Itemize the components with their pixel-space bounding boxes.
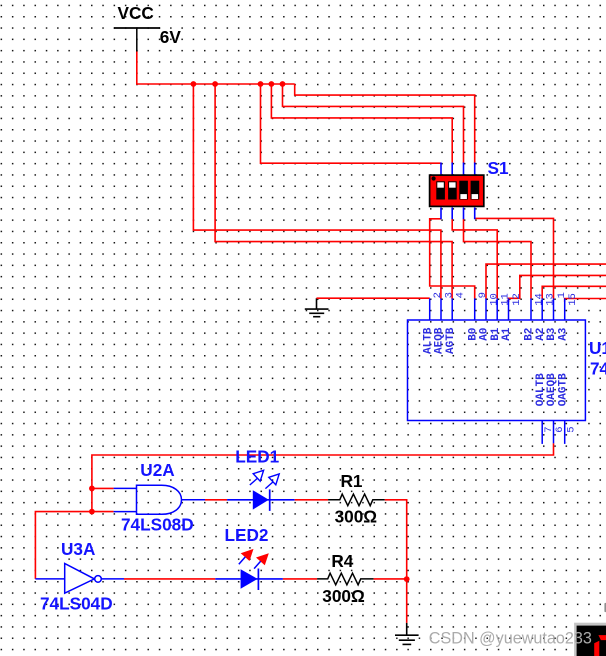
- svg-text:R4: R4: [331, 551, 353, 571]
- junction on bus at x=260: [258, 81, 264, 87]
- svg-text:9: 9: [477, 292, 489, 298]
- wire right edge to U1 pin 15 (A3): [565, 299, 606, 303]
- junction on bus at x=282: [280, 81, 286, 87]
- svg-text:LED1: LED1: [235, 447, 279, 467]
- LED1: [227, 470, 295, 511]
- wire S1 pin 2 bottom to U1 pin 11 (B1): [452, 219, 497, 299]
- svg-text:74LS04D: 74LS04D: [40, 593, 113, 613]
- svg-text:5: 5: [565, 426, 577, 432]
- wire R1 to node: [385, 500, 407, 579]
- wire U3A output to LED2: [124, 578, 215, 580]
- svg-text:U1: U1: [589, 338, 606, 358]
- junction R1/R4 node: [404, 576, 410, 582]
- svg-text:7: 7: [543, 426, 555, 432]
- wire ground to U1 pin 2 (ALTB): [317, 297, 430, 299]
- svg-text:11: 11: [500, 293, 512, 306]
- NOT gate U3A 74LS04D: [35, 564, 124, 594]
- power VCC V1: [114, 3, 181, 52]
- svg-text:13: 13: [545, 293, 557, 306]
- wire U2A output to LED1: [205, 499, 227, 501]
- wire VCC to S1 pin 1 top: [261, 84, 442, 163]
- svg-text:OALTB: OALTB: [535, 373, 547, 406]
- wire right edge to U1 pin 13 (A2): [542, 286, 606, 298]
- svg-text:A2: A2: [535, 328, 547, 341]
- wire VCC bus: [136, 83, 295, 85]
- junction on bus at x=271: [269, 81, 275, 87]
- svg-text:74: 74: [590, 359, 606, 379]
- svg-text:300Ω: 300Ω: [322, 586, 365, 606]
- LED2: [215, 549, 283, 590]
- wire to U2A input A: [92, 487, 114, 489]
- ground at R4 node: [395, 623, 419, 645]
- junction on bus at x=193: [191, 81, 197, 87]
- switch S1: [430, 163, 484, 220]
- svg-text:AEQB: AEQB: [434, 327, 446, 354]
- svg-text:B1: B1: [490, 327, 502, 341]
- IC U1 74LS85: [408, 298, 586, 444]
- junction on bus at x=215: [212, 81, 218, 87]
- svg-text:12: 12: [511, 293, 523, 306]
- svg-text:OAGTB: OAGTB: [557, 373, 569, 406]
- svg-text:4: 4: [455, 292, 467, 298]
- svg-text:S1: S1: [488, 158, 509, 178]
- wire to U2A input B: [92, 511, 114, 513]
- svg-text:U3A: U3A: [61, 539, 95, 559]
- resistor R4 300ohm: [317, 573, 374, 585]
- small component fragment at right edge: [604, 603, 606, 612]
- wire VCC to S1 pin 4 top: [295, 84, 475, 163]
- svg-text:6V: 6V: [160, 27, 182, 47]
- svg-text:U2A: U2A: [140, 460, 174, 480]
- svg-text:A1: A1: [501, 327, 513, 341]
- wire S1 pin 4 bottom to U1 pin 1 (B3): [475, 218, 554, 298]
- svg-text:LED2: LED2: [225, 525, 269, 545]
- wire feedback to U3A input: [35, 512, 92, 579]
- wire S1 pin 1 bottom to U1 pin 9 (B0): [430, 219, 475, 299]
- wire R4 to node: [374, 578, 407, 580]
- wire node to ground: [406, 579, 408, 623]
- svg-text:A0: A0: [479, 328, 491, 341]
- ground near U1 pin 2: [305, 298, 329, 317]
- wire right edge to U1 pin 12 (A1): [509, 275, 606, 302]
- junction at U2A input B: [89, 509, 95, 515]
- svg-text:B0: B0: [467, 328, 479, 341]
- svg-text:B3: B3: [546, 327, 558, 341]
- wire VCC to U1 pin 3 (AEQB): [193, 84, 441, 299]
- svg-text:300Ω: 300Ω: [335, 507, 378, 527]
- svg-text:R1: R1: [341, 471, 363, 491]
- svg-text:VCC: VCC: [118, 3, 154, 23]
- svg-text:6: 6: [554, 426, 566, 432]
- svg-text:3: 3: [443, 292, 455, 298]
- wire VCC to U1 pin 4 (AGTB): [215, 84, 452, 299]
- svg-text:1: 1: [556, 292, 568, 298]
- svg-text:CSDN @yuewutao233: CSDN @yuewutao233: [429, 630, 592, 648]
- wire VCC to S1 pin 3 top: [283, 84, 464, 163]
- svg-text:14: 14: [533, 293, 545, 306]
- svg-text:OAEQB: OAEQB: [546, 373, 558, 406]
- svg-text:AGTB: AGTB: [445, 327, 457, 354]
- wire right edge to U1 pin 10 (A0): [486, 264, 606, 299]
- svg-text:A3: A3: [557, 327, 569, 341]
- AND gate U2A 74LS08D: [114, 485, 205, 514]
- wire S1 pin 3 bottom to U1 pin 14 (B2): [464, 219, 532, 299]
- wire U1 pin 6 (OAEQB) to gate inputs: [92, 443, 554, 511]
- CSDN logo seven-segment box: [574, 623, 606, 656]
- svg-text:74LS08D: 74LS08D: [121, 514, 194, 534]
- wire VCC to S1 pin 2 top: [271, 84, 452, 163]
- wire LED2 to R4: [283, 578, 317, 580]
- junction at U2A input A: [89, 486, 95, 492]
- resistor R1 300ohm: [328, 494, 385, 506]
- svg-text:ALTB: ALTB: [422, 327, 434, 354]
- svg-text:2: 2: [432, 292, 444, 298]
- svg-text:15: 15: [567, 293, 579, 306]
- wire VCC stem: [136, 52, 138, 85]
- svg-text:10: 10: [488, 293, 500, 306]
- wire LED1 to R1: [295, 499, 328, 501]
- svg-text:B2: B2: [524, 328, 536, 341]
